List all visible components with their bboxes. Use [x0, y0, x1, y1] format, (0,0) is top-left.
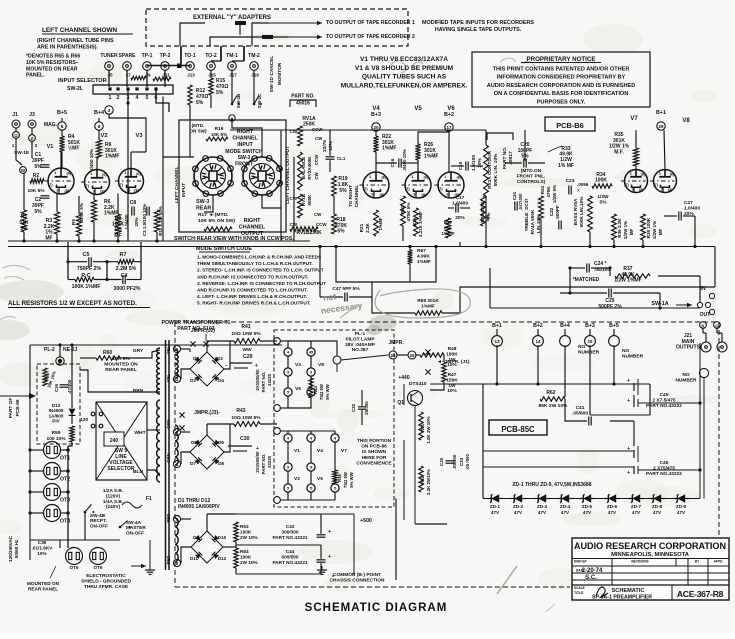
- svg-text:APPD: APPD: [714, 560, 724, 564]
- svg-text:F1: F1: [146, 496, 152, 502]
- svg-text:+440: +440: [398, 375, 409, 381]
- svg-text:J15: J15: [208, 73, 216, 78]
- svg-text:750PF 2%: 750PF 2%: [77, 266, 102, 272]
- terminal 4 transformer: [173, 515, 180, 522]
- svg-text:REVISIONS: REVISIONS: [631, 560, 648, 564]
- resistor R48 180K: [420, 353, 444, 357]
- svg-text:TM-2: TM-2: [248, 53, 260, 59]
- svg-text:PART NO.43221: PART NO.43221: [272, 535, 307, 540]
- svg-text:V6: V6: [295, 386, 301, 392]
- svg-text:not: not: [322, 291, 337, 303]
- svg-text:2.21K 1%MF: 2.21K 1%MF: [418, 211, 423, 237]
- svg-text:B+2: B+2: [533, 323, 543, 329]
- svg-text:.05/600: .05/600: [452, 454, 457, 469]
- svg-text:V8: V8: [318, 362, 324, 368]
- svg-text:.05 /500: .05 /500: [465, 454, 470, 470]
- title block outer: [572, 538, 729, 600]
- svg-text:100K 1%MF: 100K 1%MF: [72, 284, 101, 290]
- svg-text:BRN: BRN: [133, 388, 144, 394]
- svg-text:3: 3: [413, 193, 415, 197]
- svg-text:C23: C23: [566, 178, 575, 184]
- svg-text:+: +: [627, 398, 630, 404]
- proprietary notice box: [472, 52, 650, 107]
- terminal 2 transformer: [173, 428, 180, 435]
- scan smudge dark patch: [369, 315, 397, 331]
- svg-text:RED: RED: [166, 513, 171, 522]
- svg-text:100K: 100K: [595, 178, 607, 184]
- wires input jacks: [15, 128, 17, 132]
- bracket part no 45016: [290, 100, 316, 107]
- resistor R67 4.99K: [408, 250, 413, 264]
- svg-text:BASS RV5A: BASS RV5A: [573, 198, 578, 225]
- svg-text:MONITOR: MONITOR: [277, 62, 283, 85]
- svg-text:R51: R51: [540, 185, 545, 194]
- svg-text:15: 15: [587, 339, 593, 344]
- capacitor C45: [633, 383, 635, 391]
- svg-text:IS SHOWN: IS SHOWN: [362, 449, 387, 455]
- svg-text:IN: IN: [700, 286, 705, 292]
- resistor R4 50.1K: [61, 130, 63, 136]
- svg-text:(RIGHT CHANNEL TUBE PINS: (RIGHT CHANNEL TUBE PINS: [37, 38, 114, 44]
- svg-text:OT2: OT2: [60, 477, 70, 483]
- svg-text:1/2W 1%: 1/2W 1%: [652, 221, 657, 239]
- svg-text:SW-1C: SW-1C: [257, 93, 262, 108]
- svg-text:3: 3: [446, 193, 448, 197]
- svg-text:22/75: 22/75: [322, 140, 327, 152]
- wire Y adapter leads: [180, 23, 205, 46]
- svg-text:ZD-5: ZD-5: [582, 504, 593, 509]
- svg-text:ON A CONFIDENTIAL BASIS FOR ID: ON A CONFIDENTIAL BASIS FOR IDENTIFICATI…: [494, 91, 629, 97]
- svg-text:(7): (7): [363, 187, 368, 191]
- svg-text:(7): (7): [84, 184, 89, 188]
- transformer T1 primary coil: [157, 348, 160, 394]
- svg-text:V2: V2: [294, 476, 300, 482]
- resistor R27 56K: [446, 218, 451, 238]
- wires C43 C44 area: [236, 513, 354, 515]
- svg-text:B+2: B+2: [444, 112, 454, 118]
- svg-text:1/2A S.B.: 1/2A S.B.: [103, 488, 123, 493]
- svg-text:MODIFIED TAPE INPUTS FOR RECOR: MODIFIED TAPE INPUTS FOR RECORDERS: [422, 20, 534, 26]
- wires bottom left power: [30, 539, 120, 541]
- svg-text:C33: C33: [459, 457, 464, 466]
- svg-text:D9: D9: [193, 535, 199, 540]
- svg-text:SCHEMATIC: SCHEMATIC: [612, 588, 645, 594]
- title table lines: [572, 558, 729, 560]
- svg-text:PART OF: PART OF: [8, 398, 14, 419]
- svg-text:CHANNEL: CHANNEL: [239, 225, 266, 231]
- svg-text:R23: R23: [400, 205, 405, 214]
- wire selector pin6 bend: [156, 90, 169, 112]
- common point ground: [321, 566, 323, 570]
- svg-text:ON-OFF: ON-OFF: [90, 523, 108, 528]
- wire tape recorder 2: [288, 36, 322, 38]
- capacitor C2 39PF: [41, 195, 50, 197]
- svg-text:REAR PANEL: REAR PANEL: [28, 586, 58, 591]
- svg-text:V3: V3: [135, 133, 143, 139]
- svg-text:120: 120: [80, 417, 88, 422]
- svg-text:JMPR.: JMPR.: [388, 340, 404, 346]
- svg-text:ON SW): ON SW): [189, 129, 207, 134]
- svg-text:1%MF: 1%MF: [421, 304, 435, 310]
- svg-text:26: 26: [390, 353, 396, 358]
- svg-text:V1: V1: [47, 144, 54, 150]
- resistor R61 1.8K: [419, 412, 423, 440]
- svg-text:THEM SIMULTANEOUSLY TO L.CH.&: THEM SIMULTANEOUSLY TO L.CH.& R.CH.OUTPU…: [197, 261, 313, 266]
- resistor R2 10K: [30, 179, 44, 183]
- svg-text:2W 10%: 2W 10%: [240, 560, 259, 565]
- svg-text:C35: C35: [38, 540, 47, 545]
- heater terminal 11: [274, 405, 281, 412]
- svg-text:2X1500/50: 2X1500/50: [255, 369, 260, 391]
- svg-text:100K: 100K: [240, 554, 252, 559]
- svg-text:R21: R21: [359, 223, 364, 232]
- svg-text:5%: 5%: [339, 188, 347, 194]
- svg-text:1%MF: 1%MF: [382, 146, 396, 152]
- svg-text:1: 1: [411, 175, 413, 179]
- svg-text:V5: V5: [317, 476, 323, 482]
- terminal U: [13, 132, 20, 139]
- zener ZD-2: [510, 498, 526, 500]
- svg-text:R25: R25: [412, 217, 417, 226]
- svg-text:PART NO.43221: PART NO.43221: [272, 560, 307, 565]
- svg-text:5% WW: 5% WW: [325, 383, 330, 399]
- svg-text:5. RIGHT- R.CH.INP. DRIVES R.C: 5. RIGHT- R.CH.INP. DRIVES R.CH.& L.CH.O…: [197, 301, 310, 306]
- svg-text:G: G: [715, 324, 719, 329]
- svg-text:ZD-2: ZD-2: [513, 504, 524, 509]
- svg-text:5: 5: [287, 487, 289, 491]
- svg-text:180K: 180K: [446, 351, 458, 357]
- PCB-85C label box: [489, 420, 547, 435]
- svg-text:SP-3A-1 PREAMPLIFIER: SP-3A-1 PREAMPLIFIER: [592, 595, 652, 601]
- svg-text:1: 1: [444, 175, 446, 179]
- svg-text:2.2K 2W10%: 2.2K 2W10%: [426, 469, 431, 495]
- main left vertical wire: [29, 345, 31, 560]
- svg-text:1: 1: [90, 172, 92, 176]
- resistor R15 470: [209, 78, 213, 95]
- svg-text:RED: RED: [166, 555, 171, 564]
- resistor R16 10K: [206, 137, 228, 141]
- wire socket chain right: [67, 446, 69, 548]
- resistor R22 301K: [375, 131, 377, 136]
- svg-text:R38 100K: R38 100K: [646, 217, 651, 238]
- svg-text:+: +: [255, 363, 258, 369]
- bracket part no 45017: [487, 133, 513, 140]
- resistor R29 470: [481, 196, 486, 226]
- terminal 3 wire from selector: [105, 106, 113, 114]
- svg-text:13: 13: [494, 339, 500, 344]
- svg-text:NO: NO: [682, 372, 689, 378]
- svg-text:240: 240: [110, 438, 119, 444]
- svg-text:J19: J19: [251, 73, 259, 78]
- svg-text:5: 5: [310, 487, 312, 491]
- svg-text:DTS410: DTS410: [409, 381, 427, 387]
- svg-text:.05/600: .05/600: [572, 410, 588, 416]
- svg-text:47V: 47V: [491, 510, 500, 515]
- svg-text:RV3A CONTOUR: RV3A CONTOUR: [487, 150, 493, 189]
- svg-text:120/240VAC: 120/240VAC: [8, 535, 13, 562]
- svg-text:47V: 47V: [653, 510, 662, 515]
- svg-text:C3 1.0/100 10%: C3 1.0/100 10%: [142, 204, 147, 236]
- svg-text:9: 9: [310, 371, 312, 375]
- svg-text:Z: Z: [31, 136, 34, 141]
- svg-text:+500: +500: [360, 518, 372, 524]
- svg-text:47V: 47V: [608, 510, 617, 515]
- wires bridge1: [181, 348, 190, 350]
- svg-text:THIS PRINT CONTAINS PATENTED A: THIS PRINT CONTAINS PATENTED AND/OR OTHE…: [493, 67, 630, 73]
- svg-text:1%MF: 1%MF: [378, 217, 383, 230]
- svg-text:V8: V8: [682, 118, 690, 124]
- svg-text:MOUNTED ON REAR: MOUNTED ON REAR: [26, 66, 78, 72]
- wires heater group2: [281, 430, 335, 432]
- wires lower pcb85c: [483, 450, 634, 452]
- sockets OT5 OT6: [66, 548, 83, 565]
- svg-text:2W 10%: 2W 10%: [240, 535, 259, 540]
- svg-text:C22: C22: [549, 207, 554, 216]
- svg-text:R36 2.2K: R36 2.2K: [617, 218, 622, 238]
- svg-text:3: 3: [371, 193, 373, 197]
- svg-text:J5: J5: [107, 73, 113, 78]
- svg-text:HAVING SINGLE TAPE OUTPUTS.: HAVING SINGLE TAPE OUTPUTS.: [435, 27, 522, 33]
- svg-text:45: 45: [309, 351, 313, 355]
- svg-text:GRY: GRY: [133, 348, 144, 354]
- svg-text:◄–JMPR. (J1): ◄–JMPR. (J1): [437, 359, 470, 365]
- svg-text:ZD-6: ZD-6: [607, 504, 618, 509]
- svg-text:(6): (6): [423, 176, 428, 180]
- svg-text:2.2K: 2.2K: [365, 222, 370, 232]
- svg-text:25/400: 25/400: [364, 401, 369, 415]
- svg-text:(6): (6): [136, 172, 141, 176]
- svg-text:150K: 150K: [446, 377, 458, 383]
- svg-text:HERE FOR: HERE FOR: [362, 455, 387, 461]
- resistor R45 75ohm: [333, 470, 337, 484]
- resistor R13 R14 small: [131, 76, 146, 80]
- svg-text:+: +: [627, 470, 630, 476]
- wire tape recorder 1: [268, 22, 322, 24]
- svg-text:–: –: [225, 363, 228, 369]
- svg-text:BLU: BLU: [133, 469, 144, 475]
- heater circles group2: [284, 434, 292, 442]
- svg-text:MOUNTED ON: MOUNTED ON: [27, 581, 60, 586]
- svg-text:ZD-8: ZD-8: [652, 504, 663, 509]
- svg-text:PART NO.: PART NO.: [261, 454, 266, 475]
- zener ZD-8: [649, 498, 665, 500]
- svg-text:NO.387: NO.387: [352, 347, 369, 353]
- svg-text:4. LEFT- L.CH.INP. DRIVES L.CH: 4. LEFT- L.CH.INP. DRIVES L.CH.& R.CH.OU…: [197, 294, 307, 299]
- svg-text:5%: 5%: [600, 200, 608, 206]
- no number jack right: [699, 368, 708, 377]
- zener ZD-7: [628, 498, 644, 500]
- svg-text:+: +: [328, 554, 331, 560]
- svg-text:R11 2.2M 10%: R11 2.2M 10%: [158, 206, 163, 236]
- svg-text:1. MONO-COMBINES L.CH.INP. & R: 1. MONO-COMBINES L.CH.INP. & R.CH.INP. A…: [197, 255, 321, 260]
- svg-text:C45: C45: [660, 392, 669, 398]
- svg-text:C29: C29: [243, 354, 253, 360]
- svg-text:MF: MF: [629, 229, 634, 236]
- svg-text:5: 5: [334, 487, 336, 491]
- svg-text:47V: 47V: [677, 510, 686, 515]
- svg-text:C5: C5: [83, 252, 90, 258]
- svg-text:CCW: CCW: [316, 222, 327, 227]
- svg-text:1: 1: [54, 171, 56, 175]
- svg-text:CCW: CCW: [314, 154, 319, 165]
- svg-text:C17: C17: [456, 195, 465, 201]
- svg-text:EXTERNAL "Y" ADAPTERS: EXTERNAL "Y" ADAPTERS: [193, 15, 271, 21]
- svg-text:PCB-86: PCB-86: [15, 399, 21, 416]
- svg-text:OT4: OT4: [60, 519, 70, 525]
- svg-text:.01/1.6KV: .01/1.6KV: [32, 545, 54, 550]
- svg-text:CW: CW: [314, 171, 319, 179]
- svg-text:C21: C21: [512, 191, 517, 200]
- wires transformer left connections: [140, 350, 160, 358]
- svg-text:D7: D7: [190, 461, 196, 466]
- svg-text:B+5: B+5: [609, 323, 619, 329]
- svg-text:1%MF: 1%MF: [417, 259, 431, 265]
- wire bus left: [8, 240, 310, 242]
- svg-text:D10: D10: [218, 535, 227, 540]
- svg-text:1.0/400: 1.0/400: [452, 201, 468, 207]
- svg-text:47V: 47V: [561, 510, 570, 515]
- svg-text:PART NO.: PART NO.: [261, 372, 266, 393]
- svg-text:PART NO.43222: PART NO.43222: [646, 403, 682, 409]
- sockets OT1-OT4: [44, 442, 61, 459]
- svg-text:GRN: GRN: [166, 419, 171, 429]
- svg-text:3000 PF2%: 3000 PF2%: [113, 286, 140, 292]
- svg-text:(7): (7): [118, 183, 123, 187]
- svg-text:½MF: ½MF: [68, 145, 79, 152]
- svg-text:OT6: OT6: [94, 565, 103, 570]
- svg-text:(8): (8): [668, 188, 673, 192]
- svg-text:10K 5%: 10K 5%: [112, 356, 130, 362]
- svg-text:V5: V5: [414, 106, 422, 112]
- svg-text:3: 3: [661, 187, 663, 191]
- capacitor C3 1.0/100: [146, 207, 148, 216]
- switch SW5 line voltage selector: [96, 402, 147, 480]
- svg-text:D2: D2: [217, 356, 223, 361]
- svg-text:V7: V7: [341, 448, 347, 454]
- svg-text:TO RIGHT: TO RIGHT: [348, 185, 353, 207]
- svg-text:1/2W: 1/2W: [597, 194, 609, 200]
- svg-text:B+3: B+3: [371, 112, 381, 118]
- svg-text:(8): (8): [134, 189, 139, 193]
- zener ZD-1: [487, 498, 503, 500]
- svg-text:9: 9: [310, 466, 312, 470]
- capacitor C25 500PF: [608, 289, 610, 298]
- svg-text:R17 ◄-(MTD.: R17 ◄-(MTD.: [198, 212, 229, 218]
- svg-text:2: 2: [35, 143, 38, 148]
- svg-text:YEL: YEL: [166, 373, 171, 382]
- wires heater group1: [281, 340, 288, 342]
- rectifier bridge D1-D4: [190, 352, 224, 386]
- svg-text:V3: V3: [295, 362, 301, 368]
- svg-text:ARE IN PARENTHESIS).: ARE IN PARENTHESIS).: [37, 44, 99, 50]
- svg-text:SW-2L: SW-2L: [67, 86, 84, 92]
- svg-text:POWER TRANSFORMER T1: POWER TRANSFORMER T1: [162, 320, 231, 326]
- svg-text:C44: C44: [286, 549, 295, 554]
- svg-text:500K LIN. 10%: 500K LIN. 10%: [493, 153, 499, 187]
- svg-text:1% MF: 1% MF: [558, 163, 574, 169]
- svg-text:(6): (6): [456, 176, 461, 180]
- svg-text:OT3: OT3: [60, 498, 70, 504]
- svg-text:2. STEREO- L.CH.INP. IS CONNEC: 2. STEREO- L.CH.INP. IS CONNECTED TO L.C…: [197, 268, 324, 273]
- svg-text:1.0/100: 1.0/100: [471, 155, 477, 171]
- svg-text:IN4005 1A/600PIV: IN4005 1A/600PIV: [178, 504, 220, 510]
- svg-text:C32: C32: [351, 403, 356, 412]
- svg-text:C30: C30: [240, 436, 250, 442]
- svg-text:Q1: Q1: [397, 400, 404, 406]
- rectifier bridge D5-D8: [190, 435, 224, 469]
- svg-text:85K 2W 10%: 85K 2W 10%: [539, 403, 568, 409]
- svg-text:SPARE: SPARE: [119, 53, 137, 59]
- svg-text:1.8K 2W 10%: 1.8K 2W 10%: [426, 416, 431, 443]
- svg-text:B+3: B+3: [585, 323, 595, 329]
- svg-text:R63: R63: [240, 524, 249, 529]
- svg-text:TUNER: TUNER: [100, 53, 118, 59]
- terminal 1 transformer: [173, 460, 180, 467]
- svg-text:D8: D8: [218, 461, 224, 466]
- svg-text:1: 1: [12, 143, 15, 148]
- svg-text:1/4A S.B.: 1/4A S.B.: [103, 499, 123, 504]
- svg-text:C47 5PF 5%: C47 5PF 5%: [332, 286, 360, 292]
- svg-text:AND R.CH.INP. IS CONNECTED TO: AND R.CH.INP. IS CONNECTED TO R.CH.OUTPU…: [197, 274, 308, 279]
- wires PCB-85C: [403, 384, 405, 405]
- svg-text:PIV: PIV: [52, 419, 60, 424]
- svg-text:10K 5%: 10K 5%: [211, 132, 227, 137]
- svg-text:(MTD.: (MTD.: [192, 123, 205, 128]
- pencil scribble top: [390, 60, 423, 73]
- title schematic cell: [671, 585, 673, 600]
- svg-text:1.0/400: 1.0/400: [684, 206, 700, 212]
- svg-text:NE-2J: NE-2J: [63, 347, 77, 353]
- svg-text:(7): (7): [653, 183, 658, 187]
- svg-text:AUDIO RESEARCH CORPORATION: AUDIO RESEARCH CORPORATION: [574, 541, 726, 552]
- resistor R12 470: [188, 85, 192, 105]
- svg-text:(7): (7): [624, 183, 629, 187]
- svg-text:+: +: [328, 529, 331, 535]
- svg-text:R59: R59: [52, 430, 61, 436]
- svg-text:SW-3: SW-3: [196, 199, 209, 205]
- svg-text:1: 1: [630, 172, 632, 176]
- svg-text:R64: R64: [240, 549, 249, 554]
- zener ZD-4: [557, 498, 573, 500]
- svg-text:LIN.10%: LIN.10%: [536, 214, 541, 233]
- svg-text:FRONT PNL.: FRONT PNL.: [517, 173, 546, 179]
- wire arrow into box: [0, 395, 30, 397]
- svg-text:50/60 Hz: 50/60 Hz: [14, 539, 19, 558]
- svg-text:470K 5%: 470K 5%: [406, 203, 411, 222]
- svg-text:(6): (6): [66, 172, 71, 176]
- wires right section: [459, 242, 461, 247]
- svg-text:10%: 10%: [447, 388, 457, 394]
- svg-text:D11: D11: [190, 556, 199, 561]
- svg-text:28V .040AMP: 28V .040AMP: [345, 342, 376, 348]
- svg-text:500K LIN.10%: 500K LIN.10%: [579, 196, 584, 228]
- svg-text:PURPOSES ONLY.: PURPOSES ONLY.: [537, 99, 586, 105]
- svg-text:20: 20: [373, 125, 379, 130]
- svg-text:C24 *: C24 *: [594, 261, 607, 267]
- svg-text:D6: D6: [218, 440, 224, 445]
- svg-text:C8: C8: [130, 200, 137, 206]
- svg-text:(8): (8): [422, 193, 427, 197]
- svg-text:AUDIO RESEARCH CORPORATION AND: AUDIO RESEARCH CORPORATION AND IS FURNIS…: [487, 83, 636, 89]
- svg-text:10Ω 10W 5%: 10Ω 10W 5%: [231, 415, 261, 421]
- svg-text:J17: J17: [229, 73, 237, 78]
- svg-text:9: 9: [287, 371, 289, 375]
- svg-text:20%: 20%: [455, 215, 465, 221]
- svg-text:V4: V4: [317, 448, 323, 454]
- svg-text:(8): (8): [639, 188, 644, 192]
- svg-text:C27: C27: [684, 200, 693, 206]
- label W terminal: [20, 167, 27, 174]
